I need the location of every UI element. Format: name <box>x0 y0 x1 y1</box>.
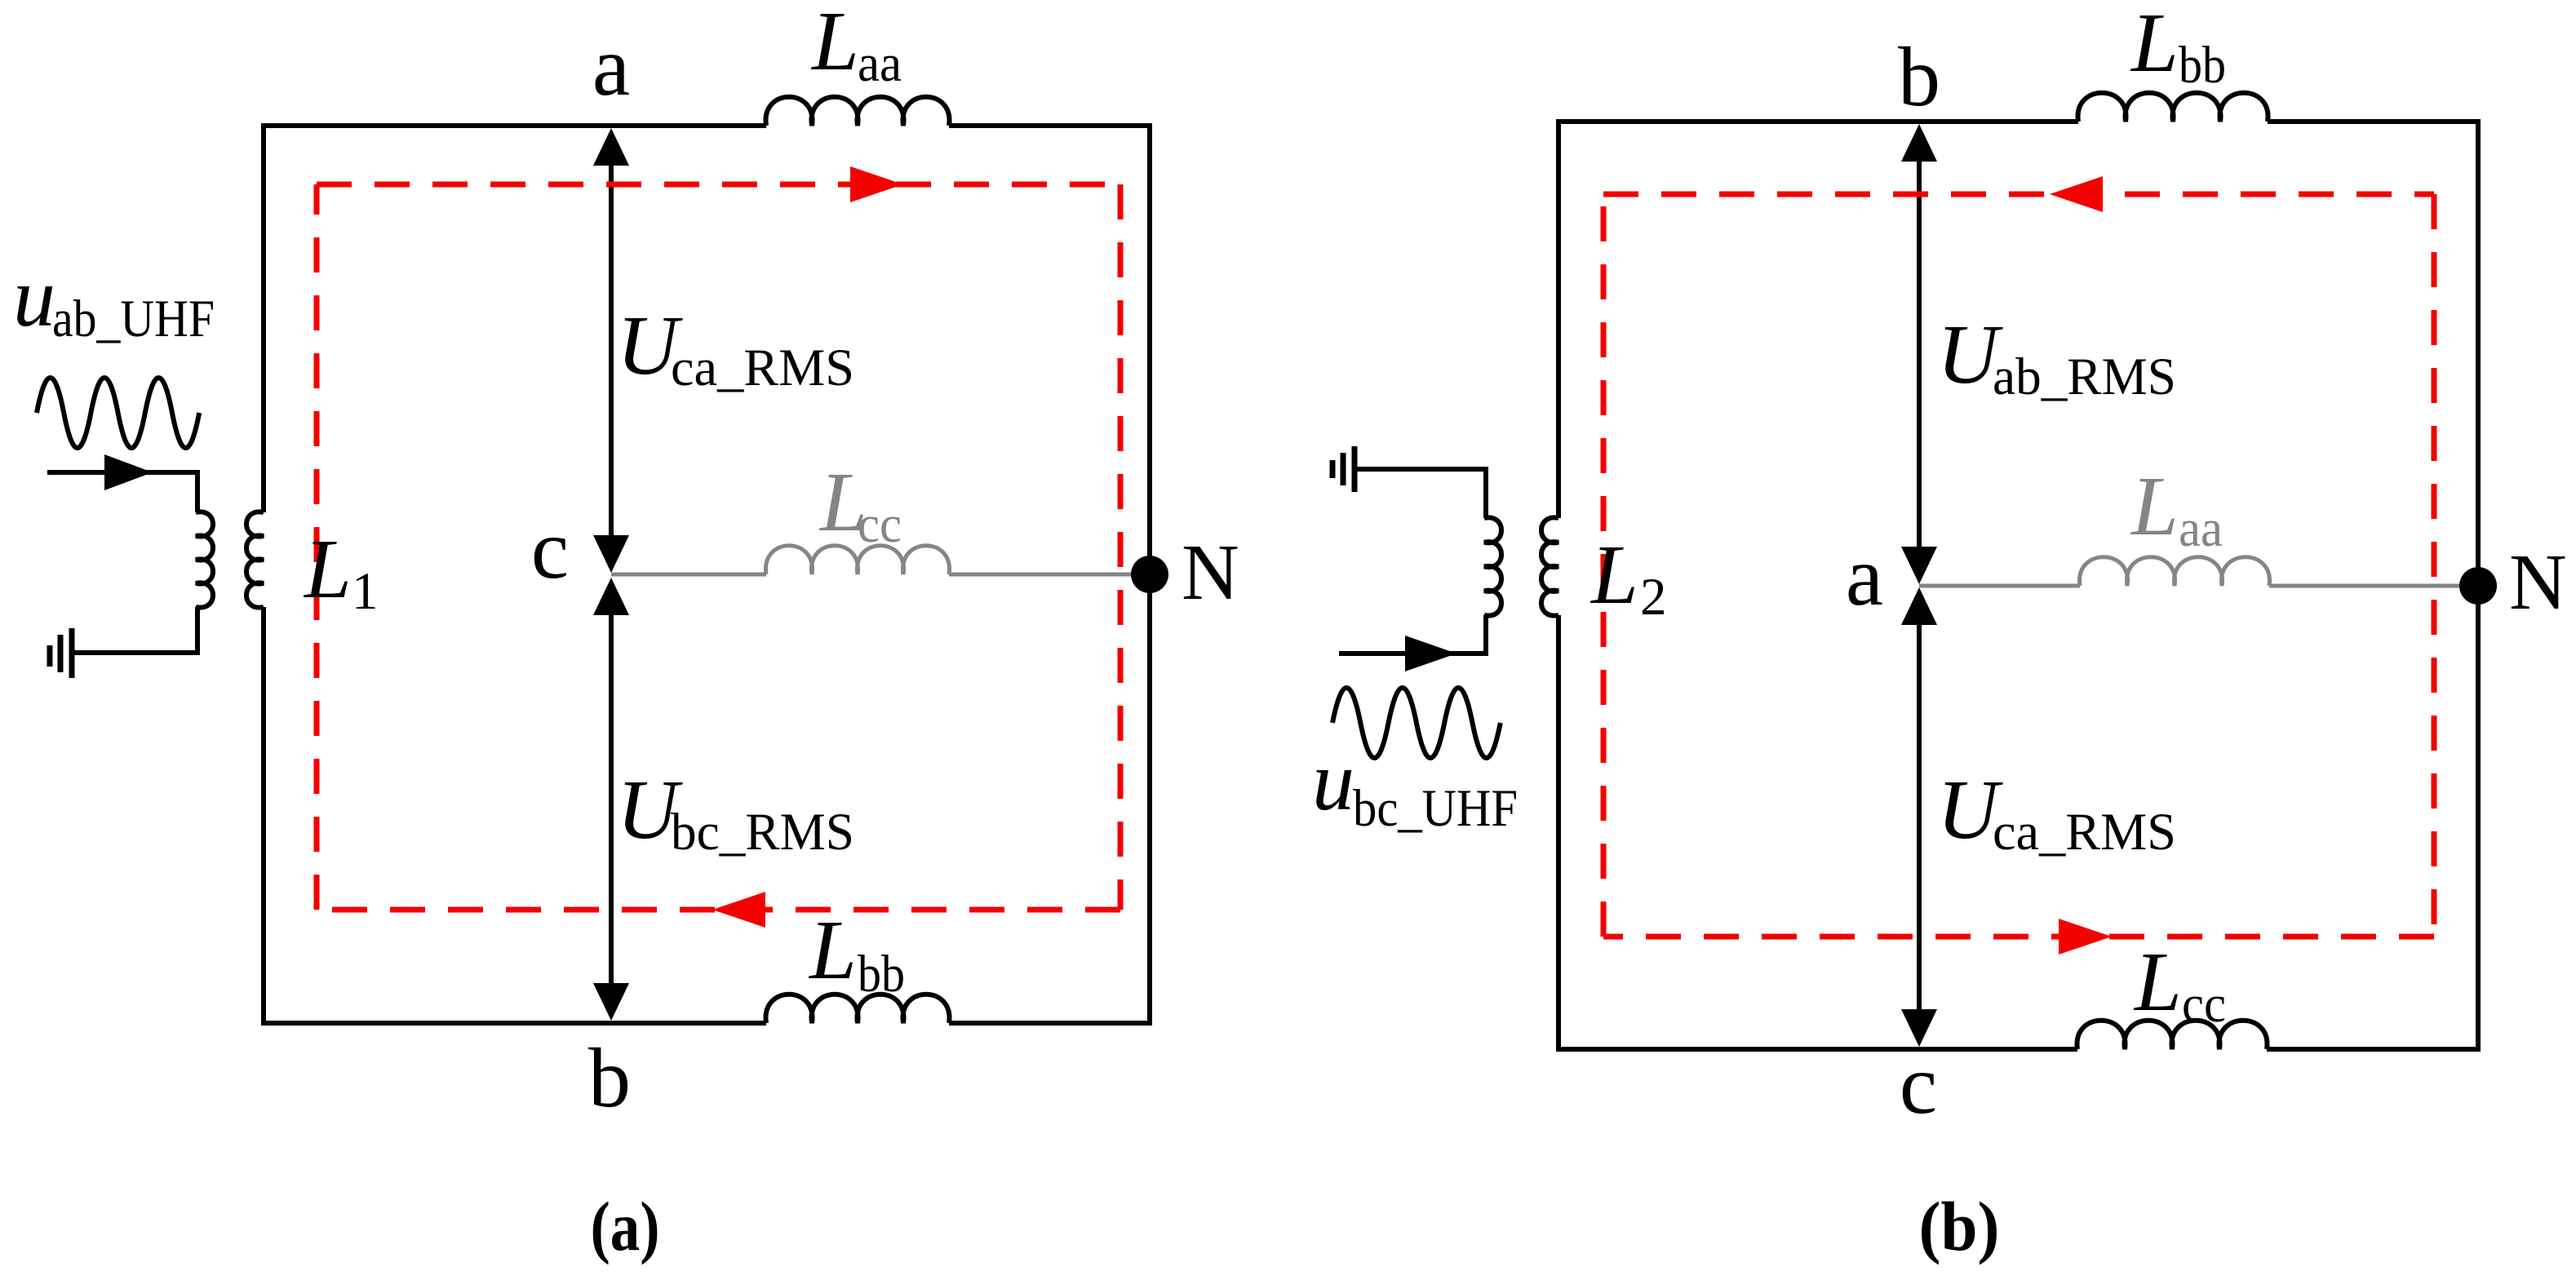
svg-text:ab_RMS: ab_RMS <box>1993 348 2176 406</box>
svg-text:N: N <box>2509 538 2567 627</box>
wire top edge left segment (a) <box>261 123 766 128</box>
red dashed loop (a) <box>317 182 1120 188</box>
svg-text:L: L <box>303 522 352 616</box>
wire gray branch right segment (b) <box>2269 584 2478 588</box>
inductor Lcc (b) <box>2077 1021 2268 1049</box>
transformer primary coil (b) <box>1484 517 1501 615</box>
wire right edge (a) <box>1147 123 1152 1026</box>
voltage arrow Ubc (a) <box>609 587 614 1012</box>
red loop arrow top (b) <box>2050 176 2103 212</box>
wire left edge lower (b) <box>1556 615 1561 1049</box>
svg-text:L: L <box>2133 935 2182 1029</box>
wire coil bottom to ground (a) <box>72 607 197 653</box>
red loop arrow bottom (a) <box>712 892 765 928</box>
inductor Lcc gray (a) <box>766 546 950 574</box>
inductor Lbb (a) <box>766 995 950 1023</box>
wire gray branch right segment (a) <box>949 573 1150 577</box>
svg-text:u: u <box>1312 734 1355 828</box>
source sine wave (b) <box>1332 688 1501 758</box>
wire bottom edge right segment (b) <box>2267 1047 2478 1052</box>
svg-text:cc: cc <box>2182 975 2226 1034</box>
svg-text:bc_UHF: bc_UHF <box>1353 779 1518 838</box>
svg-text:bc_RMS: bc_RMS <box>671 803 854 862</box>
svg-text:aa: aa <box>2179 499 2223 558</box>
source sine wave (a) <box>37 378 199 448</box>
svg-text:ab_UHF: ab_UHF <box>52 290 215 348</box>
svg-text:c: c <box>1900 1038 1937 1132</box>
svg-text:bb: bb <box>858 945 905 1004</box>
voltage arrow Uca (b) <box>1917 597 1922 1038</box>
wire top edge right segment (a) <box>949 123 1150 128</box>
wire bottom edge left segment (a) <box>261 1021 766 1026</box>
svg-text:bb: bb <box>2179 36 2226 95</box>
svg-text:2: 2 <box>1640 568 1667 627</box>
node N dot (a) <box>1131 556 1168 593</box>
source arrow (a) <box>47 470 197 475</box>
wire left edge lower (a) <box>261 607 266 1023</box>
wire arrow corner to coil (a) <box>195 470 200 512</box>
inductor L1 secondary coil (a) <box>246 512 264 607</box>
wire left edge upper (a) <box>261 126 266 512</box>
svg-text:u: u <box>13 250 55 344</box>
svg-text:N: N <box>1182 529 1239 617</box>
wire top edge right segment (b) <box>2268 119 2478 124</box>
svg-text:L: L <box>2130 0 2179 90</box>
voltage arrow Uab (b) <box>1917 135 1922 574</box>
node N dot (b) <box>2459 567 2497 605</box>
svg-text:L: L <box>1589 528 1638 622</box>
svg-text:aa: aa <box>858 34 902 93</box>
transformer primary coil (a) <box>196 512 213 607</box>
ground symbol (a) <box>69 628 75 678</box>
wire right edge (b) <box>2476 119 2481 1052</box>
red loop arrow top (a) <box>850 166 903 202</box>
svg-text:b: b <box>588 1031 631 1125</box>
voltage arrow Uca (a) <box>609 139 614 563</box>
svg-text:(b): (b) <box>1919 1187 2000 1265</box>
svg-text:L: L <box>810 0 859 88</box>
svg-text:L: L <box>2130 459 2179 553</box>
inductor Laa gray (b) <box>2080 557 2270 586</box>
inductor Laa (a) <box>766 97 950 126</box>
svg-text:ca_RMS: ca_RMS <box>671 339 854 397</box>
svg-text:L: L <box>808 903 857 997</box>
svg-text:cc: cc <box>858 495 902 554</box>
inductor Lbb (b) <box>2078 93 2268 122</box>
inductor L2 secondary coil (b) <box>1541 517 1558 615</box>
red dashed loop (b) <box>1603 192 2434 197</box>
svg-text:(a): (a) <box>591 1187 660 1265</box>
wire bottom edge left segment (b) <box>1556 1047 2077 1052</box>
wire coil bottom to arrow (b) <box>1339 615 1486 654</box>
wire gray branch a to N (b) <box>1919 584 2080 588</box>
wire gray branch c to N (a) <box>611 573 766 577</box>
source arrow head (b) <box>1405 636 1456 671</box>
wire top edge left segment (b) <box>1556 119 2078 124</box>
svg-text:ca_RMS: ca_RMS <box>1993 803 2176 862</box>
svg-text:a: a <box>592 20 630 113</box>
svg-text:c: c <box>531 503 569 596</box>
red loop arrow bottom (b) <box>2059 919 2112 955</box>
svg-text:a: a <box>1846 529 1883 623</box>
wire left edge upper (b) <box>1556 122 1561 518</box>
wire bottom edge right segment (a) <box>949 1021 1150 1026</box>
svg-text:b: b <box>1898 30 1940 124</box>
wire ground to coil (b) <box>1355 469 1486 518</box>
ground symbol (b) <box>1352 446 1358 492</box>
svg-text:1: 1 <box>352 562 379 621</box>
